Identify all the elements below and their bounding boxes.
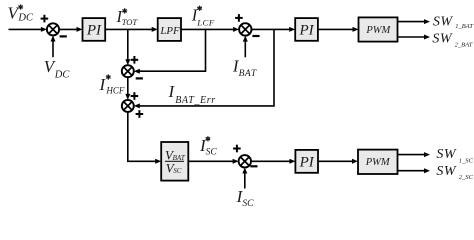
block PI3 bbox=[295, 150, 318, 173]
node I_BAT label bbox=[232, 57, 257, 79]
block PWM2 bbox=[358, 150, 398, 174]
svg-text:1_SC: 1_SC bbox=[459, 157, 474, 164]
node SW_1_BAT label bbox=[433, 14, 473, 30]
node I_BAT_Err label bbox=[168, 82, 216, 106]
wire PWM1 output SW2_BAT bbox=[398, 35, 431, 40]
svg-text:PWM: PWM bbox=[365, 25, 391, 36]
svg-text:PI: PI bbox=[299, 155, 315, 171]
wire LPF to S2 bbox=[181, 27, 239, 32]
node I_SC label bbox=[236, 187, 255, 209]
plus sign S4 top bbox=[131, 92, 139, 100]
svg-text:2_SC: 2_SC bbox=[459, 174, 474, 181]
svg-text:HCF: HCF bbox=[105, 86, 125, 96]
wire PWM2 output SW1_SC bbox=[398, 152, 431, 157]
svg-text:PWM: PWM bbox=[365, 157, 391, 168]
minus sign S2 bbox=[252, 35, 259, 37]
block PI2 bbox=[295, 18, 318, 41]
svg-text:SC: SC bbox=[173, 167, 182, 175]
node I_HCF* label bbox=[99, 74, 125, 95]
svg-text:BAT_Err: BAT_Err bbox=[175, 95, 216, 106]
wire I_SC into S5 bbox=[242, 168, 247, 189]
block PWM1 bbox=[359, 17, 398, 41]
wire PWM2 output SW2_SC bbox=[398, 168, 431, 173]
wire I_TOT* branch down to S3 bbox=[125, 29, 130, 65]
wire Vdc* input to S1 bbox=[9, 27, 47, 32]
wire S5 to PI3 bbox=[251, 159, 295, 164]
svg-text:SW: SW bbox=[436, 147, 457, 162]
svg-text:PI: PI bbox=[299, 23, 315, 39]
block VBAT/VSC gain bbox=[161, 142, 188, 181]
minus sign S5 bbox=[250, 165, 257, 167]
svg-text:TOT: TOT bbox=[122, 17, 139, 27]
svg-text:SC: SC bbox=[242, 199, 254, 209]
wire VBAL block to S5 bbox=[188, 159, 238, 164]
wire S1 to PI1 bbox=[59, 27, 82, 32]
wire V_DC feedback into S1 bbox=[51, 36, 56, 58]
wire S2 to PI2 bbox=[252, 27, 296, 32]
svg-text:2_BAT: 2_BAT bbox=[455, 41, 473, 48]
wire I_BAT_Err branch down-left into S4 bbox=[134, 29, 274, 108]
node I_LCF* label bbox=[191, 5, 215, 27]
svg-text:SW: SW bbox=[433, 14, 454, 29]
node V_DC label bbox=[44, 57, 71, 80]
minus sign S3 bbox=[136, 77, 143, 79]
svg-text:PI: PI bbox=[86, 23, 102, 39]
svg-text:DC: DC bbox=[54, 69, 71, 80]
svg-text:SW: SW bbox=[436, 164, 457, 179]
plus sign S5 bbox=[233, 145, 241, 153]
wire PWM1 output SW1_BAT bbox=[398, 19, 431, 24]
svg-text:LCF: LCF bbox=[196, 18, 215, 28]
wire I_LCF* feedback branch down-left into S3 bbox=[134, 29, 206, 73]
wire PI3 to PWM2 bbox=[318, 159, 358, 164]
node I_TOT* label bbox=[116, 7, 139, 27]
wire S4 down and right to VBAL block bbox=[128, 112, 161, 164]
svg-text:SW: SW bbox=[432, 32, 453, 47]
node SW_1_SC label bbox=[436, 147, 473, 164]
svg-text:LPF: LPF bbox=[159, 25, 180, 37]
svg-text:1_BAT: 1_BAT bbox=[455, 23, 473, 30]
wire I_BAT into S2 bbox=[243, 36, 248, 58]
wire PI2 to PWM1 bbox=[318, 27, 359, 32]
svg-text:BAT: BAT bbox=[239, 69, 257, 79]
minus sign S1 bbox=[60, 35, 67, 37]
summing junction S1 bbox=[47, 23, 59, 35]
wire PI1 to LPF bbox=[105, 27, 158, 32]
wire S3 to S4 bbox=[125, 77, 130, 100]
block LPF bbox=[158, 18, 181, 41]
summing junction S5 bbox=[239, 155, 251, 167]
node SW_2_SC label bbox=[436, 164, 473, 181]
plus sign S4 bottom bbox=[136, 110, 144, 118]
node V_DC* input label bbox=[8, 3, 34, 23]
summing junction S2 bbox=[239, 23, 251, 35]
plus sign S1 bbox=[41, 15, 49, 23]
summing junction S4 bbox=[122, 100, 134, 112]
node SW_2_BAT label bbox=[432, 32, 472, 49]
plus sign S2 bbox=[235, 14, 243, 22]
svg-text:DC: DC bbox=[17, 13, 34, 24]
svg-text:SC: SC bbox=[206, 148, 218, 158]
block PI1 bbox=[83, 18, 106, 41]
node I_SC* label bbox=[199, 136, 217, 158]
summing junction S3 bbox=[122, 65, 134, 77]
plus sign S3 bbox=[131, 56, 139, 64]
